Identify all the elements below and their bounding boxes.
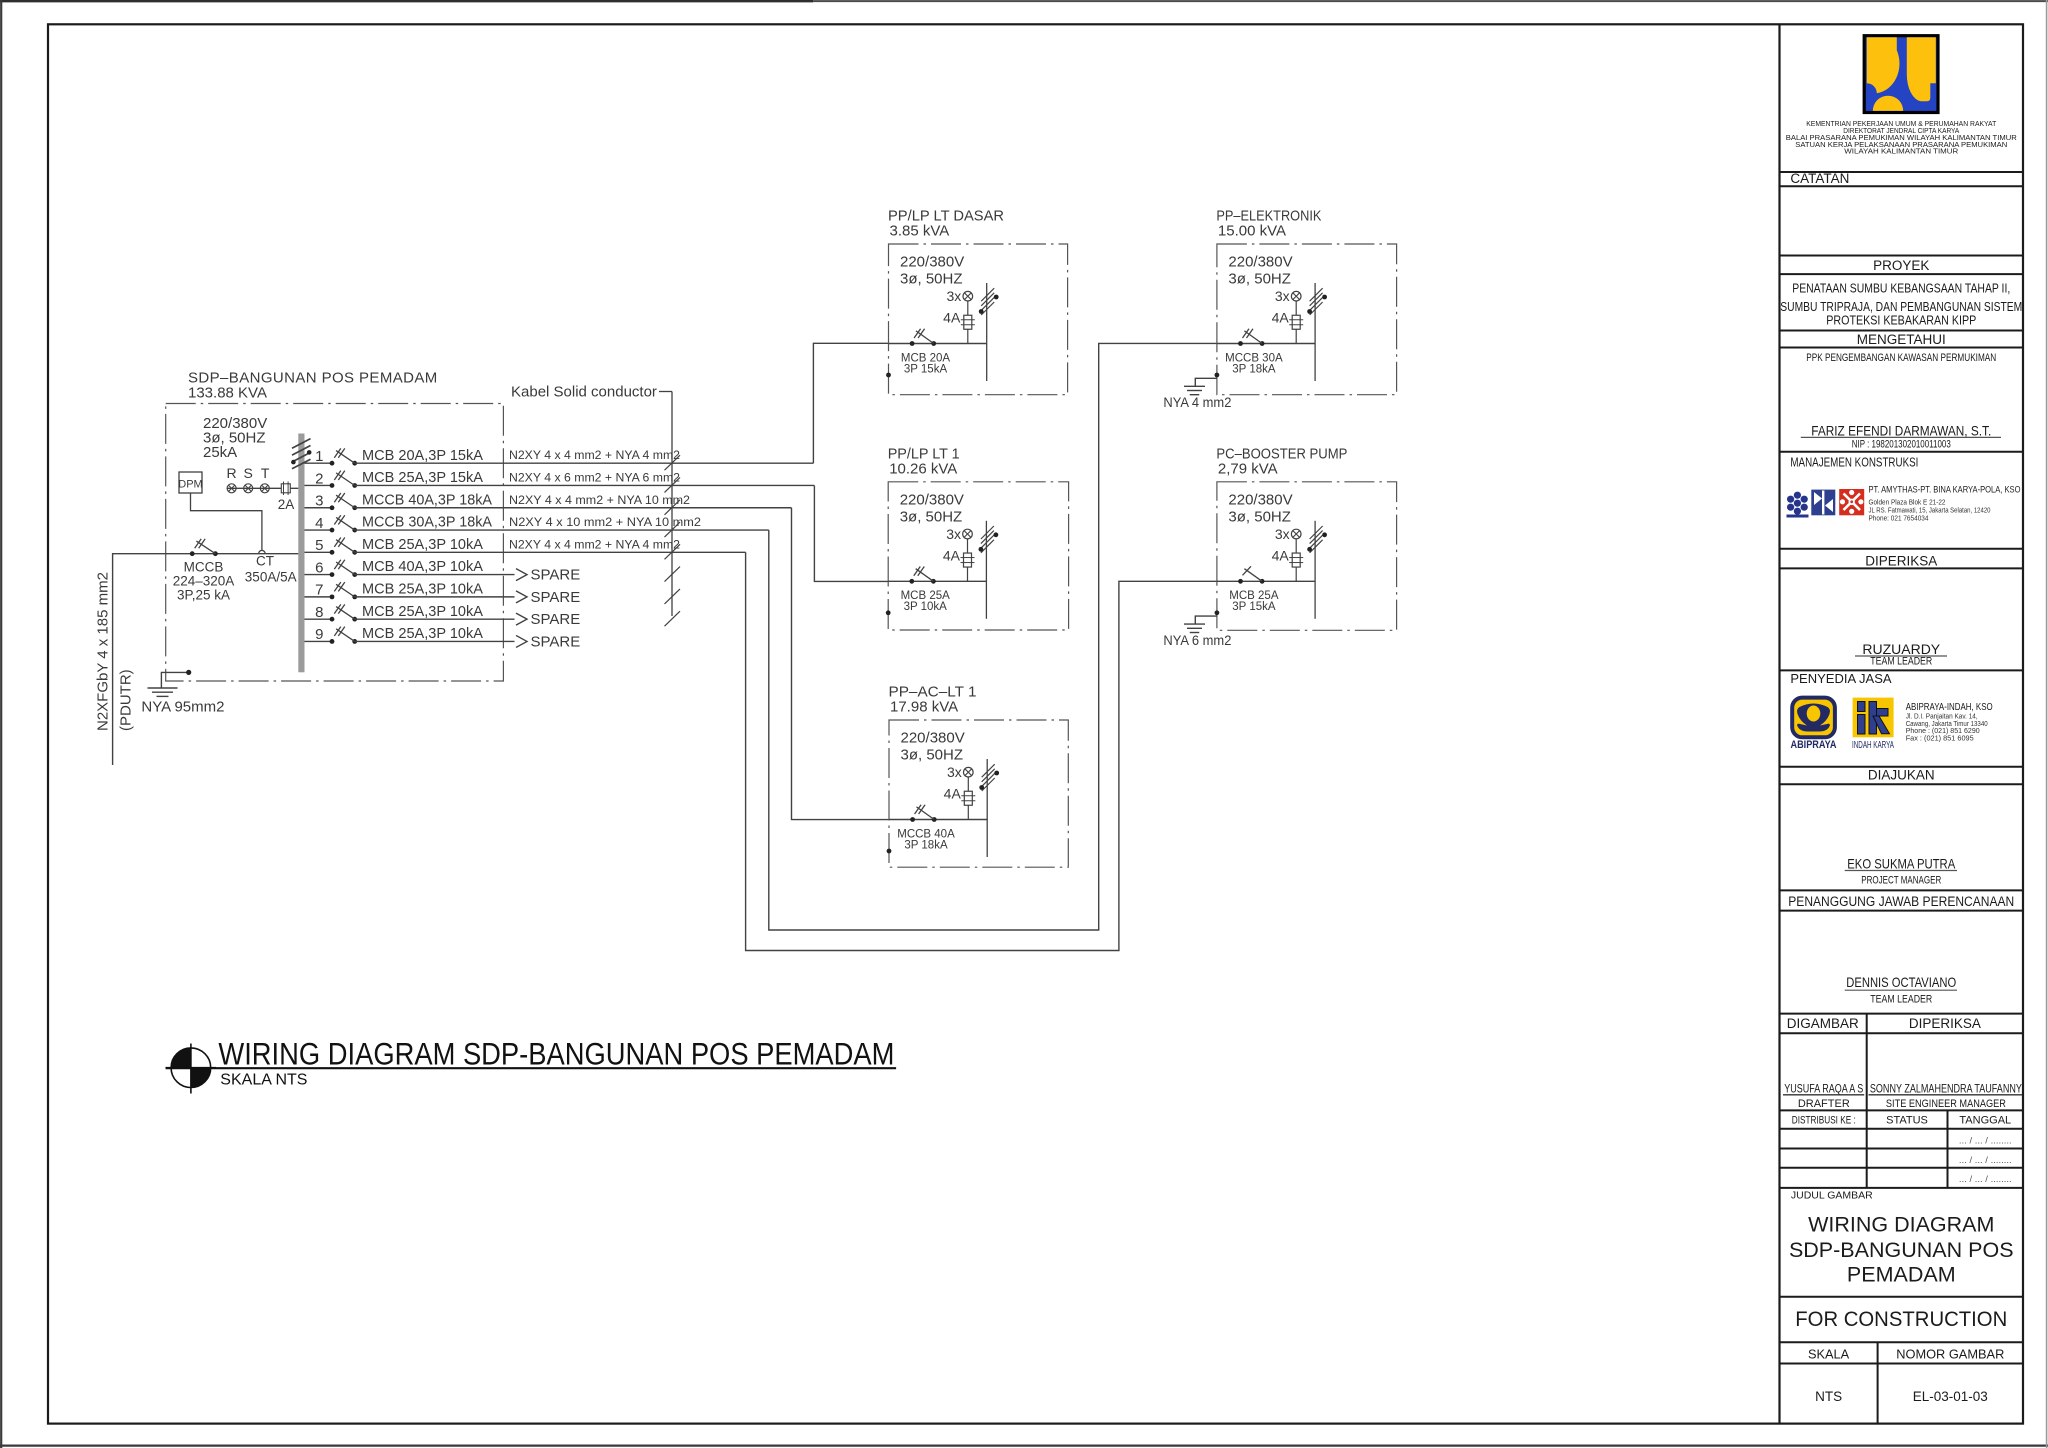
- svg-text:INDAH KARYA: INDAH KARYA: [1852, 740, 1894, 751]
- panel PP/LP LT DASAR: dash-dot box: [889, 244, 1068, 395]
- drawing title underline: [166, 1067, 897, 1069]
- svg-text:220/380V: 220/380V: [900, 491, 964, 508]
- panel PP/LP LT 1: junction dot on left edge: [886, 610, 891, 615]
- svg-text:133.88 KVA: 133.88 KVA: [188, 385, 267, 402]
- svg-text:T: T: [261, 465, 270, 481]
- svg-text:3ø, 50HZ: 3ø, 50HZ: [900, 271, 963, 288]
- incoming feeder cable line: [113, 554, 299, 765]
- svg-text:4: 4: [315, 515, 323, 532]
- feeder 4: breaker MCCB 30A,3P 18kA: [330, 528, 335, 533]
- svg-text:NIP : 198201302010011003: NIP : 198201302010011003: [1852, 439, 1951, 451]
- panel PP-ELEKTRONIK: outgoing conductor bundle: [1314, 283, 1316, 381]
- Bina Karya logo: [1811, 490, 1835, 516]
- svg-text:3.85 kVA: 3.85 kVA: [890, 223, 950, 240]
- svg-text:PT. AMYTHAS-PT. BINA KARYA-POL: PT. AMYTHAS-PT. BINA KARYA-POLA, KSO: [1869, 485, 2021, 496]
- svg-text:DISTRIBUSI KE :: DISTRIBUSI KE :: [1792, 1115, 1856, 1127]
- slash mark on conductor line 2: [665, 589, 681, 604]
- feeder 5: outgoing wire: [355, 551, 746, 553]
- svg-text:N2XY 4 x 10 mm2 + NYA 1: N2XY 4 x 10 mm2 + NYA 10 mm2: [509, 517, 701, 529]
- panel PP-ELEKTRONIK: dash-dot box: [1217, 244, 1397, 395]
- svg-text:MCB 25A,3P 10kA: MCB 25A,3P 10kA: [362, 536, 483, 553]
- svg-text:3ø, 50HZ: 3ø, 50HZ: [900, 508, 963, 525]
- svg-text:CATATAN: CATATAN: [1790, 171, 1849, 186]
- svg-text:S: S: [244, 465, 253, 481]
- svg-text:MCB 25A,3P 10kA: MCB 25A,3P 10kA: [362, 580, 483, 597]
- panel PP-AC-LT 1: breaker MCCB 40A 3P 18kA: [910, 817, 915, 822]
- svg-text:DIPERIKSA: DIPERIKSA: [1865, 553, 1937, 568]
- svg-text:MCCB: MCCB: [184, 560, 224, 575]
- svg-text:FOR CONSTRUCTION: FOR CONSTRUCTION: [1795, 1307, 2007, 1331]
- outer page border right: [2046, 0, 2048, 1448]
- svg-text:PPK PENGEMBANGAN KAWASAN PERMU: PPK PENGEMBANGAN KAWASAN PERMUKIMAN: [1806, 352, 1996, 364]
- DPM wiring to CT: [191, 493, 262, 551]
- outer page border bottom: [0, 1444, 2048, 1446]
- panel PP-ELEKTRONIK: junction dot on left edge: [1215, 373, 1220, 378]
- svg-text:PENATAAN SUMBU KEBANGSAAN TAHA: PENATAAN SUMBU KEBANGSAAN TAHAP II,: [1792, 281, 2010, 296]
- svg-text:(PDUTR): (PDUTR): [118, 669, 135, 731]
- svg-text:N2XY 4 x 6 mm2 + NYA 6: N2XY 4 x 6 mm2 + NYA 6 mm2: [509, 472, 680, 484]
- Amythas logo: [1787, 492, 1809, 518]
- panel PP-ELEKTRONIK: breaker MCCB 30A 3P 18kA: [1238, 341, 1243, 346]
- svg-text:15.00 kVA: 15.00 kVA: [1218, 223, 1286, 240]
- panel PP/LP LT DASAR: breaker MCB 20A 3P 15kA: [910, 341, 915, 346]
- svg-text:FARIZ EFENDI DARMAWAN, S.T.: FARIZ EFENDI DARMAWAN, S.T.: [1811, 423, 1991, 439]
- svg-text:DIPERIKSA: DIPERIKSA: [1909, 1016, 1981, 1031]
- svg-text:PEMADAM: PEMADAM: [1847, 1263, 1956, 1287]
- busbar: [298, 434, 304, 673]
- panel PC-BOOSTER PUMP: incoming wire: [1217, 580, 1315, 582]
- svg-text:TEAM LEADER: TEAM LEADER: [1870, 994, 1932, 1006]
- svg-text:STATUS: STATUS: [1886, 1115, 1928, 1127]
- svg-text:PENYEDIA JASA: PENYEDIA JASA: [1790, 671, 1891, 686]
- feeder 8: spare arrow: [516, 613, 527, 625]
- svg-text:3x: 3x: [1275, 288, 1290, 304]
- outer page border top: [813, 0, 2048, 2]
- svg-text:220/380V: 220/380V: [1228, 254, 1292, 271]
- svg-text:YUSUFA RAQA A S: YUSUFA RAQA A S: [1784, 1082, 1863, 1096]
- feeder 8: wire to spare: [355, 618, 515, 620]
- svg-text:9: 9: [315, 626, 323, 643]
- phase indicator lamps: [227, 487, 298, 489]
- svg-text:EL-03-01-03: EL-03-01-03: [1913, 1389, 1988, 1404]
- SDP ground wire: [161, 672, 188, 687]
- feeder 8: breaker MCB 25A,3P 10kA: [330, 617, 335, 622]
- svg-text:SKALA: SKALA: [1808, 1347, 1850, 1362]
- wire feeder1 to PP/LP LT DASAR: [813, 343, 888, 463]
- svg-text:MCCB 40A,3P 18kA: MCCB 40A,3P 18kA: [362, 491, 492, 508]
- panel PP/LP LT 1: dash-dot box: [888, 482, 1068, 630]
- svg-text:3P 18kA: 3P 18kA: [904, 839, 948, 851]
- slash mark on conductor line 3: [665, 611, 681, 626]
- svg-text:N2XFGbY 4 x 185 mm2: N2XFGbY 4 x 185 mm2: [95, 572, 112, 731]
- DPM meter box: [179, 472, 202, 493]
- panel PP/LP LT 1: incoming wire: [888, 580, 986, 582]
- svg-text:ABIPRAYA: ABIPRAYA: [1791, 739, 1837, 751]
- svg-text:SDP-BANGUNAN POS: SDP-BANGUNAN POS: [1789, 1238, 2014, 1262]
- panel PC-BOOSTER PUMP: ground NYA 6 mm2: [1195, 616, 1217, 624]
- svg-text:NOMOR GAMBAR: NOMOR GAMBAR: [1896, 1347, 2004, 1362]
- feeder 5: wire from busbar: [305, 551, 333, 553]
- svg-text:3P 10kA: 3P 10kA: [904, 601, 948, 613]
- svg-text:MENGETAHUI: MENGETAHUI: [1857, 332, 1946, 347]
- svg-text:4A: 4A: [944, 786, 962, 802]
- wire feeder4 to PP-ELEKTRONIK: [769, 343, 1217, 930]
- feeder 6: wire to spare: [355, 574, 515, 576]
- feeder 6: spare arrow: [516, 569, 527, 581]
- svg-text:DRAFTER: DRAFTER: [1798, 1098, 1850, 1110]
- SDP ground symbol: [148, 687, 178, 689]
- feeder 9: breaker MCB 25A,3P 10kA: [330, 639, 335, 644]
- svg-text:MCB 20A,3P 15kA: MCB 20A,3P 15kA: [362, 447, 483, 464]
- svg-text:... / ... / ........: ... / ... / ........: [1959, 1136, 2012, 1147]
- svg-text:N2XY 4 x 4 mm2 + NYA 4: N2XY 4 x 4 mm2 + NYA 4 mm2: [509, 539, 680, 551]
- feeder 8: wire from busbar: [305, 618, 333, 620]
- svg-text:MCB 40A,3P 10kA: MCB 40A,3P 10kA: [362, 558, 483, 575]
- feeder 1: wire from busbar: [305, 462, 333, 464]
- svg-text:3x: 3x: [946, 526, 961, 542]
- svg-text:WIRING DIAGRAM SDP-BANGUNAN PO: WIRING DIAGRAM SDP-BANGUNAN POS PEMADAM: [218, 1036, 894, 1072]
- svg-text:6: 6: [315, 559, 323, 576]
- busbar incoming bundle hatch: [292, 459, 311, 469]
- panel PP/LP LT 1: breaker MCB 25A 3P 10kA: [909, 579, 914, 584]
- svg-text:RUZUARDY: RUZUARDY: [1862, 641, 1940, 657]
- svg-text:NYA 95mm2: NYA 95mm2: [141, 699, 224, 716]
- panel PP-AC-LT 1: incoming wire: [889, 819, 987, 821]
- feeder 2: wire from busbar: [305, 484, 333, 486]
- svg-text:MCCB 30A,3P 18kA: MCCB 30A,3P 18kA: [362, 514, 492, 531]
- feeder 7: wire to spare: [355, 596, 515, 598]
- panel PC-BOOSTER PUMP: junction dot on left edge: [1215, 610, 1220, 615]
- feeder 1: breaker MCB 20A,3P 15kA: [330, 461, 335, 466]
- panel PP/LP LT 1: outgoing conductor bundle: [985, 521, 987, 619]
- distribution date rows: [1780, 1148, 2024, 1150]
- svg-text:3ø, 50HZ: 3ø, 50HZ: [1228, 508, 1291, 525]
- feeder 3: outgoing wire: [355, 507, 792, 509]
- svg-text:SPARE: SPARE: [531, 611, 581, 628]
- svg-text:3x: 3x: [1275, 526, 1290, 542]
- drawing title symbol (centre mark): [171, 1048, 211, 1088]
- svg-text:MCB 25A,3P 15kA: MCB 25A,3P 15kA: [362, 469, 483, 486]
- svg-text:3P 18kA: 3P 18kA: [1232, 363, 1276, 375]
- feeder 7: breaker MCB 25A,3P 10kA: [330, 594, 335, 599]
- svg-text:3ø, 50HZ: 3ø, 50HZ: [1228, 271, 1291, 288]
- wire feeder3 to PP-AC-LT 1: [792, 508, 890, 820]
- svg-text:SITE ENGINEER MANAGER: SITE ENGINEER MANAGER: [1886, 1098, 2006, 1110]
- svg-text:25kA: 25kA: [203, 444, 237, 461]
- panel PP-ELEKTRONIK: ground NYA 4 mm2: [1195, 378, 1217, 386]
- feeder 7: spare arrow: [516, 591, 527, 603]
- svg-text:1: 1: [315, 448, 323, 465]
- top scan artifact bar: [0, 0, 813, 2]
- svg-text:2A: 2A: [278, 497, 295, 512]
- svg-text:Phone: 021 7654034: Phone: 021 7654034: [1869, 513, 1929, 522]
- svg-text:MCB 25A,3P 10kA: MCB 25A,3P 10kA: [362, 625, 483, 642]
- feeder 9: wire to spare: [355, 640, 515, 642]
- panel PC-BOOSTER PUMP: breaker MCB 25A 3P 15kA: [1238, 579, 1243, 584]
- svg-text:2: 2: [315, 470, 323, 487]
- 2A control fuse: [281, 484, 290, 493]
- svg-text:... / ... / ........: ... / ... / ........: [1959, 1155, 2012, 1166]
- svg-text:4A: 4A: [943, 547, 961, 563]
- svg-text:PROTEKSI KEBAKARAN KIPP: PROTEKSI KEBAKARAN KIPP: [1826, 312, 1976, 327]
- svg-text:3P 15kA: 3P 15kA: [1232, 601, 1276, 613]
- svg-text:7: 7: [315, 582, 323, 599]
- svg-text:N2XY 4 x 4 mm2 + NYA 4: N2XY 4 x 4 mm2 + NYA 4 mm2: [509, 450, 680, 462]
- feeder 2: outgoing wire: [355, 484, 815, 486]
- main MCCB 224-320A: [190, 551, 195, 556]
- svg-text:220/380V: 220/380V: [1228, 491, 1292, 508]
- feeder 6: wire from busbar: [305, 574, 333, 576]
- Indah Karya logo: [1853, 698, 1894, 738]
- feeder 6: breaker MCB 40A,3P 10kA: [330, 572, 335, 577]
- svg-text:SPARE: SPARE: [531, 633, 581, 650]
- svg-text:4A: 4A: [943, 310, 961, 326]
- svg-text:DIAJUKAN: DIAJUKAN: [1868, 768, 1935, 783]
- slash mark on conductor line 1: [665, 567, 681, 582]
- svg-text:10.26 kVA: 10.26 kVA: [889, 460, 957, 477]
- svg-text:SPARE: SPARE: [531, 589, 581, 606]
- feeder 3: wire from busbar: [305, 507, 333, 509]
- svg-text:3x: 3x: [947, 288, 962, 304]
- svg-text:3ø, 50HZ: 3ø, 50HZ: [901, 747, 964, 764]
- svg-text:N2XY 4 x 4 mm2 + NYA 10: N2XY 4 x 4 mm2 + NYA 10 mm2: [509, 495, 690, 507]
- svg-text:17.98 kVA: 17.98 kVA: [890, 699, 958, 716]
- svg-text:NYA 4 mm2: NYA 4 mm2: [1163, 395, 1231, 410]
- svg-text:PROYEK: PROYEK: [1873, 258, 1929, 273]
- svg-text:5: 5: [315, 537, 323, 554]
- feeder 9: spare arrow: [516, 635, 527, 647]
- feeder 7: wire from busbar: [305, 596, 333, 598]
- panel PP-AC-LT 1: dash-dot box: [889, 720, 1068, 867]
- feeder 4: conductor slash: [665, 522, 681, 537]
- panel PC-BOOSTER PUMP: outgoing conductor bundle: [1314, 521, 1316, 619]
- feeder 5: conductor slash: [665, 544, 681, 559]
- feeder 3: conductor slash: [665, 500, 681, 515]
- panel PP-ELEKTRONIK: incoming wire: [1217, 343, 1315, 345]
- svg-text:R: R: [227, 465, 237, 481]
- svg-text:... / ... / ........: ... / ... / ........: [1959, 1174, 2012, 1185]
- feeder 3: breaker MCCB 40A,3P 18kA: [330, 505, 335, 510]
- svg-text:PROJECT MANAGER: PROJECT MANAGER: [1861, 875, 1941, 887]
- outer page border left: [0, 0, 2, 1448]
- svg-text:EKO SUKMA PUTRA: EKO SUKMA PUTRA: [1847, 855, 1956, 871]
- panel PP/LP LT DASAR: incoming wire: [889, 343, 987, 345]
- svg-text:Fax : (021) 851 6095: Fax : (021) 851 6095: [1906, 734, 1974, 743]
- svg-text:8: 8: [315, 604, 323, 621]
- wire feeder2 to PP/LP LT 1: [814, 486, 888, 582]
- wire feeder5 to PC-BOOSTER PUMP: [746, 552, 1217, 950]
- svg-text:SPARE: SPARE: [531, 567, 581, 584]
- svg-text:224–320A: 224–320A: [173, 574, 235, 589]
- Abipraya logo: [1792, 698, 1835, 738]
- svg-text:CT: CT: [256, 554, 274, 569]
- svg-text:350A/5A: 350A/5A: [245, 570, 297, 585]
- panel PP/LP LT DASAR: outgoing conductor bundle: [986, 283, 988, 381]
- feeder 5: breaker MCB 25A,3P 10kA: [330, 550, 335, 555]
- svg-text:WIRING DIAGRAM: WIRING DIAGRAM: [1808, 1213, 1994, 1237]
- feeder 1: outgoing wire: [355, 462, 814, 464]
- svg-text:NTS: NTS: [1815, 1389, 1842, 1404]
- svg-text:TANGGAL: TANGGAL: [1959, 1115, 2011, 1127]
- svg-text:SONNY ZALMAHENDRA TAUFANNY: SONNY ZALMAHENDRA TAUFANNY: [1870, 1082, 2022, 1096]
- Kabel Solid conductor vertical line: [671, 392, 673, 617]
- svg-text:JUDUL GAMBAR: JUDUL GAMBAR: [1791, 1190, 1873, 1202]
- panel PC-BOOSTER PUMP: dash-dot box: [1217, 482, 1397, 631]
- svg-text:3x: 3x: [947, 764, 962, 780]
- feeder 2: conductor slash: [665, 477, 681, 492]
- svg-text:DENNIS OCTAVIANO: DENNIS OCTAVIANO: [1846, 974, 1956, 990]
- svg-text:MANAJEMEN KONSTRUKSI: MANAJEMEN KONSTRUKSI: [1790, 455, 1918, 470]
- svg-text:220/380V: 220/380V: [901, 730, 965, 747]
- SDP panel dash-dot box: [166, 404, 504, 682]
- svg-text:WILAYAH KALIMANTAN TIMUR: WILAYAH KALIMANTAN TIMUR: [1844, 147, 1959, 156]
- feeder 1: conductor slash: [665, 455, 681, 470]
- panel PP/LP LT DASAR: junction dot on left edge: [886, 373, 891, 378]
- Pola logo: [1839, 489, 1864, 515]
- panel PP-AC-LT 1: junction dot on left edge: [887, 849, 892, 854]
- svg-text:4A: 4A: [1272, 547, 1290, 563]
- svg-text:PENANGGUNG JAWAB PERENCANAAN: PENANGGUNG JAWAB PERENCANAAN: [1788, 894, 2014, 909]
- svg-text:220/380V: 220/380V: [900, 254, 964, 271]
- svg-text:DPM: DPM: [178, 479, 202, 491]
- svg-text:TEAM LEADER: TEAM LEADER: [1870, 656, 1932, 668]
- feeder 4: wire from busbar: [305, 529, 333, 531]
- svg-text:2,79 kVA: 2,79 kVA: [1218, 460, 1278, 477]
- svg-text:NYA 6 mm2: NYA 6 mm2: [1163, 633, 1231, 648]
- svg-text:MCB 25A,3P 10kA: MCB 25A,3P 10kA: [362, 603, 483, 620]
- PU ministry logo: [1863, 34, 1940, 114]
- svg-text:3: 3: [315, 493, 323, 510]
- title block left edge: [1778, 24, 1780, 1423]
- feeder 2: breaker MCB 25A,3P 15kA: [330, 483, 335, 488]
- svg-text:3P 15kA: 3P 15kA: [904, 363, 948, 375]
- svg-text:4A: 4A: [1272, 310, 1290, 326]
- svg-text:3P,25 kA: 3P,25 kA: [177, 588, 230, 603]
- svg-text:DIGAMBAR: DIGAMBAR: [1787, 1016, 1859, 1031]
- feeder 9: wire from busbar: [305, 640, 333, 642]
- panel PP-AC-LT 1: outgoing conductor bundle: [986, 759, 988, 857]
- CATATAN section: [1780, 171, 2024, 173]
- svg-text:Kabel Solid conductor: Kabel Solid conductor: [511, 384, 657, 401]
- feeder 4: outgoing wire: [355, 529, 769, 531]
- CT 350A/5A: [259, 550, 266, 553]
- svg-text:SKALA NTS: SKALA NTS: [220, 1071, 307, 1088]
